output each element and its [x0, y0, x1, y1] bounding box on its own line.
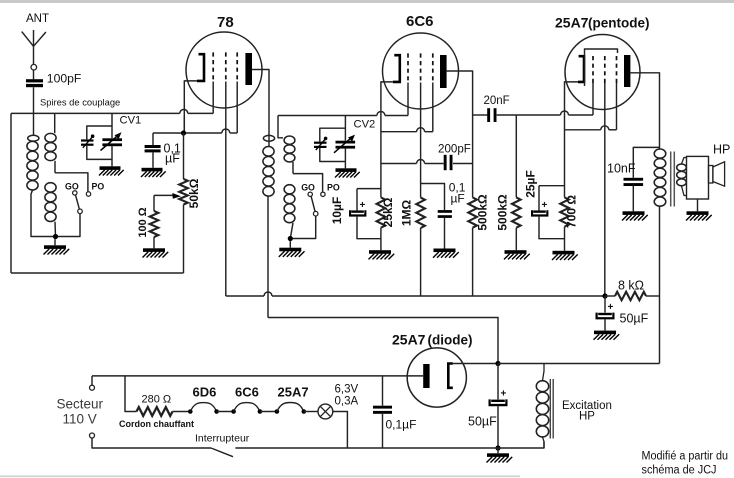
wire 10nF branch: [633, 147, 659, 177]
wire 6C6 g1 to rail2: [407, 83, 409, 116]
resistor R6 500k (grid leak): [512, 197, 521, 227]
svg-text:200pF: 200pF: [438, 142, 471, 155]
tube 78 grid g3 (dashed): [236, 52, 238, 81]
wire C11 top lead: [382, 376, 384, 406]
inductor L3 primary top loop: [263, 135, 274, 141]
wire 78 g1 to rail: [212, 82, 214, 114]
switch S1 GO contact: [73, 191, 77, 195]
svg-text:GO: GO: [301, 183, 315, 193]
wire C11 bottom lead: [382, 414, 384, 448]
wire CV2 lead from rail: [344, 116, 346, 141]
tube 6C6 anode: [440, 55, 447, 88]
wire field coil bottom: [543, 437, 545, 448]
capacitor C4 10uF electrolytic: [351, 210, 364, 212]
wire 6C6 cathode-g3 line: [381, 131, 417, 133]
inductor L1 coupling coil top loop: [28, 135, 39, 141]
tube 25A7d cathode bracket: [448, 364, 453, 388]
wire screen bus: [226, 295, 264, 297]
capacitor C7 20nF plates: [487, 108, 490, 122]
wire B+ rail: [268, 318, 498, 364]
svg-text:CV2: CV2: [354, 119, 376, 131]
svg-text:PO: PO: [327, 183, 340, 193]
resistor R3 25k: [377, 197, 386, 227]
wire 50uF-a lead: [604, 296, 606, 313]
wire 78 cathode lead: [184, 81, 197, 131]
wire heater link a: [217, 411, 234, 413]
wire g1 rail tank2: [278, 115, 377, 117]
svg-text:ANT: ANT: [26, 13, 49, 25]
wire 25A7p cathode-g3 line: [565, 129, 601, 131]
wire neutral from terminal: [92, 438, 211, 448]
wire 20nF left lead: [473, 114, 488, 116]
wire 6C6 g2 down: [420, 83, 422, 198]
svg-text:25A7: 25A7: [278, 385, 309, 400]
junction heater dot 5: [275, 409, 280, 414]
wire pot top lead: [183, 133, 185, 179]
lamp 6,3V 0,3A: [318, 404, 333, 419]
svg-text:100 Ω: 100 Ω: [137, 207, 149, 237]
junction heater dot 1: [188, 409, 193, 414]
capacitor C6 0,1uF plates: [438, 210, 452, 213]
inductor L1 coupling coil: [27, 141, 38, 150]
svg-text:25kΩ: 25kΩ: [381, 197, 395, 227]
capacitor C9 50uF electrolytic: [598, 313, 612, 315]
wire R2 top lead: [153, 195, 155, 211]
wire 78 g3 to cathode line: [236, 82, 238, 134]
svg-text:HP: HP: [579, 411, 595, 423]
trimmer CT2 adjust line: [316, 139, 326, 150]
svg-text:6D6: 6D6: [193, 385, 217, 400]
svg-text:500kΩ: 500kΩ: [476, 194, 490, 231]
wire dropper branch: [125, 376, 137, 412]
ground R2: [143, 248, 165, 252]
switch S2 blade: [311, 197, 315, 212]
inductor L5 field coil: [536, 381, 548, 392]
inductor L3 primary coil: [263, 147, 274, 157]
switch S2 common contact: [313, 211, 318, 216]
junction B+ node: [495, 361, 500, 366]
wire 10nF to ground: [632, 186, 634, 211]
wire R5 bottom to screen bus: [472, 228, 474, 296]
svg-text:50kΩ: 50kΩ: [187, 178, 201, 208]
capacitor C11 0,1uF plates: [373, 406, 392, 409]
svg-text:Spires de couplage: Spires de couplage: [40, 97, 120, 108]
wire L4 bottom to junction: [290, 223, 293, 239]
svg-text:700 Ω: 700 Ω: [565, 195, 579, 228]
wire antenna to C-ant: [33, 70, 35, 79]
ground CV2: [336, 168, 357, 172]
wire B+ to output stage: [498, 363, 660, 365]
wire R2 to ground: [153, 237, 155, 248]
wire C3 lead: [152, 133, 154, 145]
wire HP to ground: [697, 199, 699, 211]
junction tank2 ground node: [288, 236, 293, 241]
tube 78 anode: [245, 53, 252, 85]
inductor L4 lower section: [284, 185, 295, 194]
wire C6 branch: [421, 184, 445, 211]
inductor L2 upper section: [45, 133, 56, 142]
wire 500k2 top lead: [515, 115, 517, 197]
wire C9 to ground: [604, 319, 606, 330]
svg-text:10nF: 10nF: [607, 162, 636, 176]
svg-text:20nF: 20nF: [484, 95, 510, 107]
wire 25A7d output lead: [453, 363, 498, 365]
ground R7: [553, 251, 575, 255]
svg-text:GO: GO: [65, 182, 79, 192]
wire field coil top: [543, 364, 545, 381]
wire trimmer top rail: [87, 126, 112, 139]
capacitor C8 25uF electrolytic: [533, 210, 546, 212]
wire rail to L2 top: [54, 113, 56, 133]
ground 10nF: [623, 211, 645, 215]
capacitor CV1 arrow: [101, 135, 120, 151]
svg-text:Interrupteur: Interrupteur: [195, 433, 250, 445]
wire pot bottom lead: [183, 205, 185, 274]
capacitor CV2 arrow: [334, 137, 352, 153]
svg-text:Modifié a partir du: Modifié a partir du: [642, 451, 729, 463]
wire C3 to ground: [152, 152, 154, 167]
wire S1 common to junction: [56, 214, 81, 237]
capacitor C3 0,1uF plates: [145, 145, 161, 148]
svg-text:25A7: 25A7: [555, 15, 589, 31]
speaker HP horn: [709, 166, 713, 184]
wire R4 bottom to screen bus: [420, 228, 422, 296]
wire 25uF top rail: [539, 185, 565, 187]
wire 25A7p g2 down to screen bus: [604, 83, 606, 296]
wire T1 secondary bottom: [682, 186, 687, 196]
transformer T1 secondary: [677, 164, 687, 171]
wire rail2 to L4 top: [278, 116, 283, 138]
wire box bottom edge: [11, 272, 184, 274]
ground HP: [687, 211, 709, 215]
capacitor C10 50uF electrolytic: [491, 400, 505, 402]
tube 25A7d envelope: [407, 348, 466, 407]
junction neutral node: [495, 445, 500, 450]
junction heater dot 4: [258, 409, 263, 414]
wire box left edge: [10, 113, 12, 273]
wire 25uF leads: [538, 186, 540, 211]
speaker HP frame: [687, 156, 709, 199]
wire 25A7p anode lead: [630, 73, 659, 149]
wire R7 to ground: [564, 227, 566, 251]
tube 78 cathode: [197, 54, 204, 81]
resistor R8 8k: [605, 295, 615, 297]
wire R9 to heater chain: [173, 411, 191, 413]
scan border top: [0, 0, 734, 3]
wire L2 bottom to junction: [54, 222, 57, 237]
capacitor CV2 main plates: [336, 141, 356, 144]
wire trimmer2 bottom rail: [320, 148, 346, 162]
wire L4 tap section: [292, 162, 294, 174]
wire 78 cathode-g3 node line: [153, 132, 222, 134]
capacitor C12 10nF plates: [624, 178, 644, 181]
wire mains L line: [91, 376, 93, 385]
wire T1 primary bottom down: [659, 206, 661, 363]
wire T1 secondary top: [682, 158, 687, 164]
trimmer CT1 adjust line: [83, 137, 93, 148]
resistor R4 1M: [416, 198, 425, 228]
svg-text:(diode): (diode): [428, 333, 473, 348]
transformer T1 primary: [654, 149, 666, 158]
heater 25A7: [277, 403, 304, 412]
wire 200pF to anode line: [453, 163, 473, 165]
svg-text:78: 78: [217, 14, 234, 31]
switch S1 PO contact: [86, 192, 90, 196]
svg-text:6C6: 6C6: [406, 13, 434, 30]
ground R6: [505, 250, 527, 254]
svg-text:+: +: [360, 200, 366, 211]
tube 25A7p grid g1 (dashed): [592, 56, 594, 83]
tube 25A7p cathode: [578, 56, 584, 82]
svg-text:500kΩ: 500kΩ: [495, 194, 509, 231]
wire C6 to ground: [444, 218, 446, 249]
junction heater dot 2: [214, 409, 219, 414]
field coil core: [549, 379, 551, 439]
wire 25A7p cathode lead: [565, 82, 579, 197]
junction heater dot 3: [231, 409, 236, 414]
wire 10uF leads: [356, 189, 358, 211]
svg-text:6,3V: 6,3V: [335, 384, 359, 396]
wire L2 tap section: [54, 161, 56, 173]
wire tap to PO contact: [55, 173, 88, 192]
wire R3 to ground: [380, 228, 382, 251]
capacitor C5 200pF plates: [444, 155, 447, 170]
wire CV1 lead from rail: [111, 113, 113, 138]
tube 25A7p screen box: [585, 49, 618, 86]
tube 6C6 grid g3 (dashed): [432, 53, 434, 82]
svg-text:Secteur: Secteur: [57, 397, 104, 412]
wire 10uF top rail: [357, 188, 381, 190]
wire 50uF-b top lead: [497, 364, 499, 400]
capacitor 100pF plates: [26, 79, 43, 82]
wire lamp to neutral: [333, 412, 348, 449]
trimmer CT1 plates: [81, 139, 94, 141]
wire 50uF-b bottom lead: [497, 406, 499, 448]
wire g1 rail tank1 (top of box): [11, 112, 180, 114]
inductor L2 lower section: [45, 183, 56, 192]
svg-text:+: +: [501, 389, 507, 400]
switch S1 blade: [76, 195, 80, 209]
junction 78 cathode node: [181, 130, 186, 135]
resistor R2 100ohm: [150, 211, 159, 237]
wire 6C6 g3 to cathode line: [432, 83, 434, 132]
wire neutral to field coil: [498, 442, 544, 449]
resistor R9 280ohm cordon: [137, 407, 173, 416]
svg-text:µF: µF: [451, 192, 465, 206]
tube 6C6 envelope: [383, 33, 459, 109]
wire 20nF to pentode g1: [497, 114, 561, 116]
svg-text:50µF: 50µF: [468, 415, 497, 429]
svg-text:Cordon chauffant: Cordon chauffant: [119, 419, 194, 429]
wire 6C6 cathode lead: [381, 82, 393, 197]
wire 78 g2 down to screen bus: [225, 82, 227, 297]
wire S2 common to junction: [290, 216, 315, 238]
svg-text:PO: PO: [92, 182, 105, 192]
transformer T1 core: [670, 152, 672, 207]
scan border bottom: [0, 476, 520, 478]
tube 25A7p anode: [624, 55, 630, 87]
ground C9: [594, 331, 616, 335]
svg-text:8 kΩ: 8 kΩ: [618, 279, 644, 293]
wire heater to lamp: [304, 411, 318, 413]
ground R3: [369, 250, 391, 254]
junction screen bus node: [602, 293, 607, 298]
ground tank1: [54, 239, 56, 245]
heater 6D6: [190, 403, 216, 412]
ground C3: [142, 168, 163, 172]
tube 78 grid g1 (dashed): [212, 52, 214, 81]
svg-text:50µF: 50µF: [620, 312, 649, 326]
ground C6: [434, 249, 456, 253]
switch S2 PO contact: [321, 192, 325, 196]
svg-text:schéma de JCJ: schéma de JCJ: [642, 465, 717, 477]
tube 25A7p envelope: [565, 35, 640, 110]
ground tank2: [289, 241, 291, 248]
svg-text:(pentode): (pentode): [588, 16, 650, 31]
wire trimmer2 top rail: [320, 128, 346, 141]
tube 25A7p grid g2 (dashed): [604, 56, 606, 83]
svg-text:25A7: 25A7: [392, 332, 426, 348]
ground neutral: [497, 448, 499, 453]
tube 6C6 grid g1 (dashed): [407, 53, 409, 82]
svg-text:25µF: 25µF: [524, 170, 538, 198]
wire 6C6 anode lead: [447, 71, 473, 197]
wire CV1 to ground: [111, 146, 113, 166]
tube 78 envelope: [186, 32, 262, 108]
wire CV2 to ground: [344, 149, 346, 169]
svg-text:10µF: 10µF: [330, 197, 344, 225]
svg-text:0,1µF: 0,1µF: [386, 418, 417, 432]
wire L3 bottom to B+ rail: [267, 196, 269, 317]
terminal secteur N: [90, 433, 95, 438]
junction tank1 ground node: [53, 234, 58, 239]
svg-text:+: +: [542, 200, 548, 211]
terminal secteur L: [90, 385, 95, 390]
svg-text:+: +: [608, 302, 614, 313]
svg-text:µF: µF: [165, 152, 180, 166]
wire L1 bottom to junction: [31, 190, 56, 236]
wire neutral line: [235, 447, 498, 449]
tube 25A7p grid g3 (dashed): [616, 56, 618, 83]
inductor L4 upper section: [284, 136, 295, 144]
switch S1 common contact: [78, 209, 83, 214]
resistor R-pot 50k: [179, 179, 188, 205]
wire R6 to ground: [515, 228, 517, 251]
ground CV1: [100, 166, 121, 170]
wire 25A7p g3 to cathode line: [616, 83, 618, 130]
switch S2 GO contact: [308, 192, 312, 196]
wire 200pF line from cathode: [381, 163, 417, 165]
svg-text:HP: HP: [713, 143, 730, 157]
tube 6C6 grid g2 (dashed): [420, 53, 422, 82]
svg-text:1MΩ: 1MΩ: [400, 199, 414, 226]
svg-text:6C6: 6C6: [235, 385, 259, 400]
tube 78 grid g2 (dashed): [225, 52, 227, 81]
wire trimmer bottom rail: [87, 146, 112, 160]
junction heater dot 6: [302, 409, 307, 414]
tube 6C6 cathode: [393, 55, 400, 82]
antenna symbol: [33, 30, 35, 64]
svg-text:0,3A: 0,3A: [335, 396, 359, 408]
wire C-ant to coupling coil: [33, 87, 35, 135]
switch interrupteur blade: [211, 448, 233, 457]
capacitor CV1 main plates: [102, 138, 122, 141]
tube 25A7d plate bar: [423, 364, 429, 388]
svg-text:280 Ω: 280 Ω: [142, 394, 172, 406]
svg-text:CV1: CV1: [120, 115, 142, 127]
wire 78 anode lead: [252, 70, 269, 147]
pot wiper arrow: [154, 194, 174, 196]
svg-text:100pF: 100pF: [47, 72, 82, 86]
wire tap2 to PO contact: [293, 174, 323, 192]
svg-text:110 V: 110 V: [63, 412, 97, 427]
resistor R5 500k (anode load): [468, 197, 477, 227]
resistor R7 700ohm: [560, 197, 569, 226]
trimmer CT2 plates: [314, 142, 327, 144]
wire heater link b: [260, 411, 277, 413]
heater 6C6: [234, 403, 260, 412]
